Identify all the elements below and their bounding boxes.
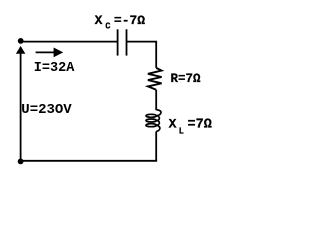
svg-text:=7Ω: =7Ω (188, 118, 212, 133)
svg-text:U=23OV: U=23OV (21, 102, 72, 118)
current arrow I (36, 51, 55, 53)
capacitor C1 plates (117, 29, 119, 55)
svg-text:R=7Ω: R=7Ω (171, 72, 202, 86)
wire top-left horizontal (node A to capacitor) (21, 41, 117, 43)
node B junction dot bottom-left (18, 159, 24, 165)
node A junction dot top-left (18, 38, 24, 44)
svg-text:=-7Ω: =-7Ω (114, 13, 145, 28)
wire resistor to inductor (155, 90, 157, 110)
voltage arrow head (up) on left wire (16, 46, 26, 54)
wire left vertical (source branch) (20, 47, 22, 161)
svg-text:I=32A: I=32A (34, 61, 75, 76)
wire inductor to bottom-right corner (155, 132, 157, 161)
svg-text:L: L (179, 127, 184, 137)
inductor L1 coil (156, 110, 161, 116)
wire bottom horizontal (21, 160, 158, 162)
svg-text:C: C (105, 21, 111, 31)
resistor R1 zigzag (148, 68, 162, 90)
wire capacitor to top-right corner (127, 42, 157, 68)
svg-text:X: X (169, 117, 177, 132)
svg-text:X: X (95, 13, 103, 28)
